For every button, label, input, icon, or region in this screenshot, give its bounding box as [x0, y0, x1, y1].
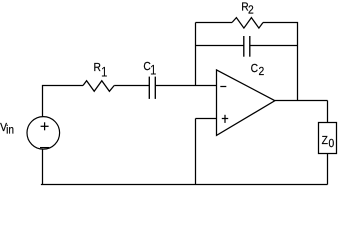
wire C2 branch right	[250, 45, 298, 47]
svg-text:0: 0	[328, 137, 334, 150]
svg-text:in: in	[6, 123, 14, 137]
wire R2 top-left segment	[196, 22, 233, 24]
resistor R1	[83, 81, 114, 92]
wire feedback left vertical	[195, 23, 197, 86]
label C1	[143, 60, 156, 78]
svg-text:1: 1	[150, 62, 157, 78]
label Vin	[0, 121, 14, 137]
capacitor C1	[149, 77, 155, 99]
op-amp inverting input marker	[220, 86, 226, 88]
op-amp U1	[217, 70, 275, 135]
wire to non-inverting input	[196, 118, 217, 120]
wire Z0 to ground return	[327, 154, 329, 185]
svg-text:Z: Z	[322, 134, 328, 147]
op-amp non-inverting input marker	[222, 115, 228, 123]
resistor R2	[232, 18, 263, 29]
svg-text:R: R	[93, 61, 100, 74]
ground return wire (bottom)	[41, 184, 328, 186]
label Z0	[322, 134, 335, 150]
capacitor C2	[244, 36, 250, 57]
wire R2 to output node	[263, 23, 298, 101]
wire ground leg from non-inverting input	[195, 119, 197, 185]
voltage source V1	[27, 117, 60, 150]
label C2	[251, 62, 265, 78]
source plus terminal	[41, 122, 49, 130]
wire C1 to op-amp inverting input	[155, 85, 216, 87]
wire source bottom to ground return	[42, 149, 44, 184]
wire op-amp output	[275, 100, 328, 102]
load Z0	[319, 123, 337, 154]
wire output down to Z0	[327, 101, 329, 123]
wire R1 to C1	[114, 85, 149, 87]
svg-text:1: 1	[101, 63, 108, 79]
wire C2 branch left	[196, 45, 244, 47]
label R2	[241, 0, 254, 16]
source minus terminal	[40, 147, 49, 149]
wire from source top to R1	[43, 86, 84, 117]
label R1	[93, 61, 107, 80]
svg-text:C: C	[251, 62, 258, 75]
svg-text:2: 2	[248, 3, 254, 16]
svg-text:2: 2	[259, 65, 265, 78]
